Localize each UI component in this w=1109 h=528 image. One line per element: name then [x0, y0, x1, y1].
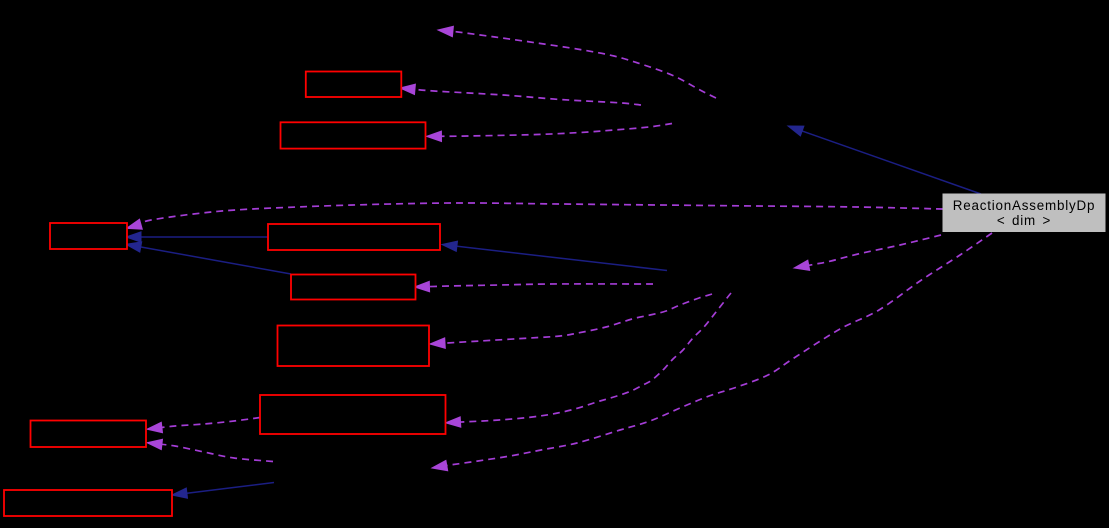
edge G to box H [147, 418, 260, 433]
edge to box G [446, 293, 732, 427]
edge to bottom node [432, 233, 992, 471]
node box E [291, 275, 416, 300]
inherit edge to upper node [788, 126, 981, 194]
edge to box F [430, 294, 712, 348]
node box I [4, 490, 172, 516]
node ReactionAssemblyDp [943, 194, 1105, 232]
edge to box B [427, 124, 673, 142]
edge to box E [415, 281, 654, 291]
node box A [306, 72, 402, 98]
node box C [50, 223, 127, 249]
svg-text:< dim >: < dim > [997, 213, 1051, 228]
edge to box C [127, 203, 944, 229]
node box D [268, 224, 440, 250]
edge to top node [438, 26, 716, 98]
edge to box H lower [147, 439, 273, 461]
node box H [31, 421, 147, 448]
inherit edge to box I [172, 483, 274, 499]
svg-text:ReactionAssemblyDp: ReactionAssemblyDp [953, 198, 1095, 213]
inherit edge to box D [442, 241, 667, 270]
node box F [278, 326, 430, 367]
edge to mid node [794, 235, 941, 270]
node box B [281, 122, 426, 148]
inherit edge E to C [126, 242, 291, 274]
node box G [260, 395, 446, 434]
edge to box A [400, 84, 641, 105]
inherit edge D to C [126, 232, 268, 242]
